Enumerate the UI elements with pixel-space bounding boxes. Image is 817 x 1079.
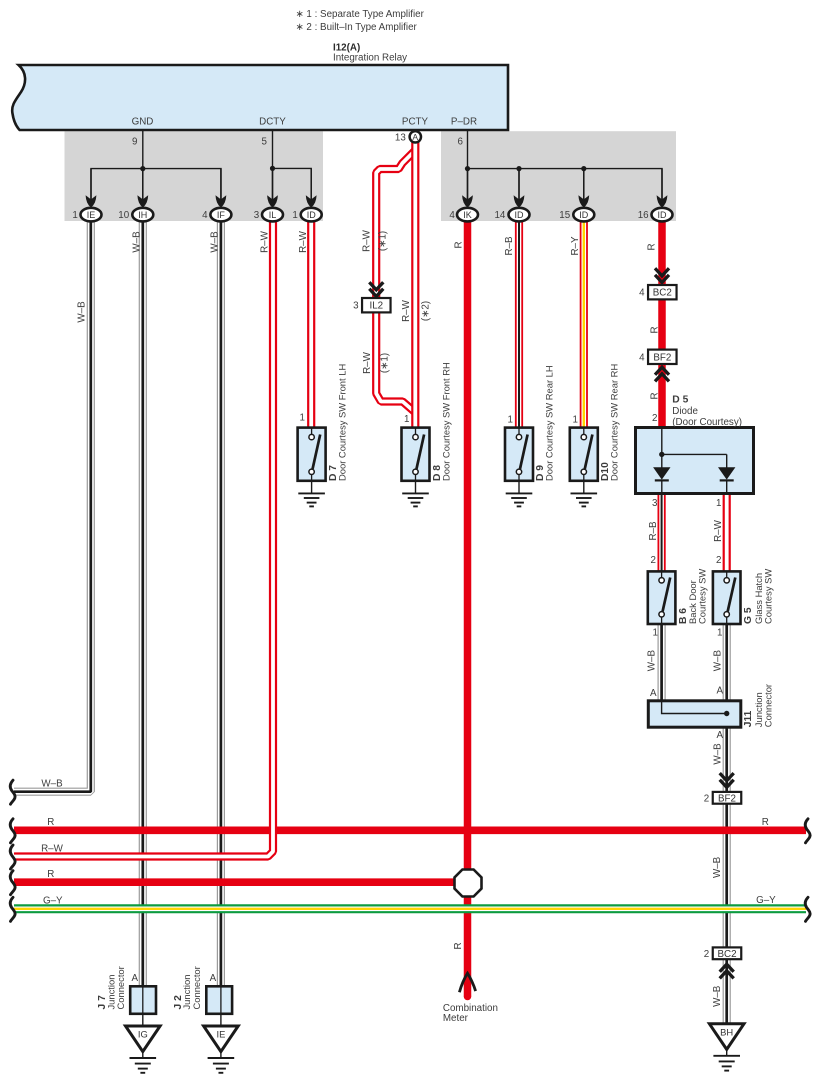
connector shading left (I12 pin block): [65, 131, 324, 221]
terminal A label J2: [210, 973, 217, 984]
svg-text:Connector: Connector: [763, 684, 774, 727]
pin 3 label D5: [652, 498, 658, 509]
svg-text:1: 1: [300, 413, 305, 424]
svg-text:R: R: [454, 241, 465, 248]
label Meter: [443, 1013, 469, 1024]
svg-text:∗ 2 : Built–In Type Amplifier: ∗ 2 : Built–In Type Amplifier: [296, 22, 418, 33]
note *2 built-in type amplifier: [296, 22, 418, 33]
wire R-B from pin 14 ID to switch D9: [515, 214, 523, 428]
break symbol W-B bus left: [10, 780, 15, 804]
label Door Courtesy SW Front RH: [441, 362, 452, 481]
diode (door courtesy) D5: [636, 428, 754, 494]
svg-text:D 5: D 5: [672, 395, 688, 406]
bus label G-Y left: [43, 896, 63, 907]
connector BC2 pin 2: [704, 947, 741, 959]
connector arrows into BC2 (pin4): [655, 268, 669, 282]
svg-text:3: 3: [652, 498, 658, 509]
terminal A label below J11: [716, 730, 723, 741]
label Connector (J11): [763, 684, 774, 727]
connector pin 16 ID: [638, 169, 673, 222]
svg-text:Door Courtesy SW Front RH: Door Courtesy SW Front RH: [441, 362, 452, 481]
door courtesy switch front LH D7: [298, 428, 326, 481]
bus label G-Y right: [756, 895, 776, 906]
svg-text:ID: ID: [515, 210, 525, 220]
octagon junction (R wire): [455, 870, 482, 897]
svg-text:BC2: BC2: [653, 288, 672, 299]
bus label R right: [762, 817, 769, 828]
terminal label GND: [132, 117, 154, 128]
svg-text:1: 1: [404, 414, 409, 425]
svg-text:4: 4: [639, 352, 645, 363]
svg-text:BC2: BC2: [717, 949, 736, 960]
pin 1 label G5: [717, 628, 722, 639]
connector arrows into IL2: [369, 282, 383, 296]
wire label (*1) lower: [380, 353, 391, 373]
svg-text:Connector: Connector: [115, 966, 126, 1009]
svg-text:W–B: W–B: [712, 743, 723, 765]
svg-text:W–B: W–B: [712, 650, 723, 672]
wire label W-B (G5-J11): [712, 650, 723, 672]
wire W-B from B6 to junction connector J11: [657, 624, 665, 701]
svg-text:1: 1: [716, 498, 721, 509]
svg-text:1: 1: [508, 415, 513, 426]
svg-text:R: R: [47, 869, 54, 880]
wire R-W PCTY (*1) via junction IL2: [376, 150, 415, 412]
wire R-W from diode D5 to glass hatch courtesy switch G5: [723, 493, 731, 572]
svg-text:Integration Relay: Integration Relay: [333, 53, 407, 64]
ground IG: [126, 1026, 161, 1073]
svg-text:4: 4: [449, 210, 455, 221]
svg-text:(∗1): (∗1): [380, 353, 391, 373]
svg-text:R–W: R–W: [260, 230, 271, 253]
svg-text:∗ 1 : Separate Type Amplifier: ∗ 1 : Separate Type Amplifier: [296, 9, 425, 20]
label Courtesy SW (B6): [697, 569, 708, 624]
label Junction (J7): [105, 975, 116, 1010]
junction dot P-DR at 15: [581, 166, 586, 171]
junction connector J11: [648, 701, 741, 727]
junction dot P-DR at IK: [465, 166, 470, 171]
wire W-B from pin IE to left break: [14, 214, 91, 792]
ground for D7: [298, 481, 325, 507]
connector pin 14 ID: [494, 169, 529, 222]
svg-text:W–B: W–B: [210, 231, 221, 253]
svg-text:W–B: W–B: [132, 231, 143, 253]
pin 1 label B6: [653, 628, 658, 639]
ground BH: [709, 1024, 744, 1071]
svg-text:DCTY: DCTY: [259, 117, 286, 128]
label Door Courtesy SW Rear LH: [544, 365, 555, 481]
bus wire R (upper): [14, 826, 806, 834]
pin 1 label D10: [573, 415, 578, 426]
svg-text:A: A: [716, 686, 723, 697]
wire label (*1) upper: [378, 231, 389, 251]
label Glass Hatch: [753, 573, 764, 624]
integration relay I12(A): [12, 65, 508, 130]
connector pin 13 A (PCTY): [395, 131, 421, 143]
break symbol R bus right: [805, 819, 810, 843]
wire P-DR branch horizontal: [468, 169, 663, 199]
wire GND branch horizontal: [91, 169, 221, 199]
svg-text:R: R: [47, 817, 54, 828]
svg-text:W–B: W–B: [77, 301, 88, 323]
pin 2 label D5: [652, 413, 657, 424]
svg-text:W–B: W–B: [41, 779, 63, 790]
label (Door Courtesy): [672, 417, 742, 428]
junction connector IL2 pin 3: [353, 298, 390, 312]
connector arrows into BF2 (pin2): [720, 773, 734, 787]
wire label R-W (D5-G5): [713, 519, 724, 542]
wire W-B from G5 through J11 BF2 BC2 to ground BH: [723, 624, 731, 1024]
svg-text:A: A: [716, 730, 723, 741]
svg-text:A: A: [650, 688, 657, 699]
junction connector J7: [130, 986, 156, 1014]
svg-text:A: A: [131, 973, 138, 984]
svg-text:Door Courtesy SW Rear LH: Door Courtesy SW Rear LH: [544, 365, 555, 481]
wire W-B from pin IH to junction connector J7: [139, 214, 147, 987]
wire W-B from pin IF to junction connector J2: [217, 214, 225, 987]
svg-text:IH: IH: [138, 210, 147, 220]
svg-text:A: A: [412, 132, 418, 142]
label Junction (J11): [753, 692, 764, 727]
wire label R-W *2: [401, 299, 412, 322]
svg-text:W–B: W–B: [712, 985, 723, 1007]
wire R-W PCTY (*2) to door courtesy switch D8: [411, 141, 419, 428]
label Junction (J2): [181, 975, 192, 1010]
wire J2 to ground IE: [220, 1014, 222, 1026]
svg-text:1: 1: [573, 415, 578, 426]
label Door Courtesy SW Rear RH: [609, 364, 620, 481]
svg-text:W–B: W–B: [646, 650, 657, 672]
svg-text:G–Y: G–Y: [756, 895, 776, 906]
door courtesy switch rear LH D9: [505, 428, 533, 481]
label Combination: [443, 1003, 498, 1014]
connector shading right (I12 pin block): [441, 131, 676, 221]
connector pin 1 ID (DCTY): [292, 168, 321, 221]
label Door Courtesy SW Front LH: [337, 364, 348, 481]
wire label W-B (IE): [77, 301, 88, 323]
ground for D9: [506, 481, 533, 507]
wire label R-W *1 lower: [362, 351, 373, 374]
wire DCTY pin 5 stub: [262, 131, 273, 168]
svg-text:Courtesy SW: Courtesy SW: [697, 569, 708, 624]
junction connector J2: [206, 986, 232, 1014]
svg-text:2: 2: [716, 555, 721, 566]
wire label W-B (IF): [210, 231, 221, 253]
label J 7: [97, 995, 108, 1010]
svg-text:6: 6: [458, 137, 464, 148]
wire label W-B (B6-J11): [646, 650, 657, 672]
svg-text:ID: ID: [307, 210, 317, 220]
ground for D10: [571, 481, 598, 507]
svg-text:9: 9: [132, 137, 137, 148]
svg-text:3: 3: [353, 301, 359, 312]
label D 7: [328, 465, 339, 481]
svg-text:IL2: IL2: [369, 301, 383, 312]
wire label R (BF2-D5): [650, 392, 661, 399]
pin 1 label D9: [508, 415, 513, 426]
svg-text:R: R: [650, 326, 661, 333]
svg-text:W–B: W–B: [712, 856, 723, 878]
junction dot DCTY branch: [270, 166, 275, 171]
note *1 separate type amplifier: [296, 9, 425, 20]
label D 9: [535, 465, 546, 481]
label Connector (J2): [191, 966, 202, 1009]
wire label R-Y (D10): [570, 236, 581, 256]
connector pin 15 ID: [559, 169, 594, 222]
svg-text:R: R: [646, 243, 657, 250]
junction dot GND branch: [140, 166, 145, 171]
wire GND pin 9 stub: [132, 131, 143, 169]
wire label R-B (D9): [504, 236, 515, 256]
wire label R-B (D5-B6): [648, 521, 659, 541]
svg-text:Meter: Meter: [443, 1013, 469, 1024]
connector pin 4 IK: [449, 169, 478, 222]
label B 6: [678, 608, 689, 624]
wire label R (16 ID): [646, 243, 657, 250]
wire R-W from pin IL to R-W bus: [14, 214, 273, 857]
connector arrows out of BC2 (pin2): [720, 964, 734, 978]
break symbol G-Y bus right: [805, 897, 810, 921]
svg-text:G–Y: G–Y: [43, 896, 63, 907]
svg-text:PCTY: PCTY: [402, 117, 429, 128]
door courtesy switch rear RH D10: [570, 428, 598, 481]
svg-text:Courtesy SW: Courtesy SW: [763, 569, 774, 624]
svg-text:2: 2: [651, 555, 656, 566]
terminal label DCTY: [259, 117, 286, 128]
pin 2 label B6: [651, 555, 656, 566]
wire label W-B (BC2-BH): [712, 985, 723, 1007]
svg-text:IF: IF: [217, 210, 226, 220]
wire label R (combination meter): [453, 942, 464, 949]
svg-text:IG: IG: [138, 1029, 148, 1040]
ground IE: [204, 1026, 239, 1073]
svg-text:R–W: R–W: [41, 844, 64, 855]
label Connector (J7): [115, 966, 126, 1009]
terminal label P-DR: [451, 117, 477, 128]
bus label W-B: [41, 779, 63, 790]
bus wire G-Y: [14, 904, 806, 913]
svg-text:1: 1: [292, 210, 297, 221]
bus wire R (lower) to octagon junction: [14, 878, 458, 886]
break symbol R-W bus left: [10, 845, 15, 869]
svg-text:R–W: R–W: [298, 230, 309, 253]
svg-text:4: 4: [639, 288, 645, 299]
svg-text:1: 1: [717, 628, 722, 639]
svg-text:Door Courtesy SW Front LH: Door Courtesy SW Front LH: [337, 364, 348, 481]
terminal A label B6 side: [650, 688, 657, 699]
wire R-W from pin ID to door courtesy switch D7: [307, 214, 315, 428]
svg-text:ID: ID: [579, 210, 589, 220]
wire label R (BC2-BF2): [650, 326, 661, 333]
svg-text:15: 15: [559, 210, 570, 221]
svg-text:R: R: [762, 817, 769, 828]
label I12(A): [333, 43, 360, 54]
wire R-Y from pin 15 ID to switch D10: [580, 214, 588, 428]
break symbol G-Y bus left: [10, 897, 15, 921]
svg-text:BF2: BF2: [718, 793, 736, 804]
svg-text:Diode: Diode: [672, 406, 698, 417]
wire label R-W *1 upper: [361, 229, 372, 252]
label D 8: [432, 465, 443, 481]
wire label (*2): [421, 301, 432, 321]
svg-text:10: 10: [118, 210, 129, 221]
wire P-DR pin 6 stub: [458, 131, 468, 169]
svg-text:IK: IK: [463, 210, 472, 220]
pin 1 label D7: [300, 413, 305, 424]
junction dot P-DR at 14: [516, 166, 521, 171]
svg-text:BF2: BF2: [653, 352, 671, 363]
connector pin 3 IL: [254, 168, 283, 221]
svg-text:1: 1: [653, 628, 658, 639]
terminal label PCTY: [402, 117, 429, 128]
bus label R left: [47, 817, 54, 828]
svg-text:R–Y: R–Y: [570, 236, 581, 256]
svg-text:IL: IL: [269, 210, 277, 220]
svg-text:Door Courtesy SW Rear RH: Door Courtesy SW Rear RH: [609, 364, 620, 481]
connector pin 4 IF: [202, 169, 231, 222]
terminal A label J7: [131, 973, 138, 984]
back door courtesy switch B6: [648, 571, 676, 624]
connector pin 1 IE: [72, 169, 101, 222]
terminal A label G5 side: [716, 686, 723, 697]
svg-text:P–DR: P–DR: [451, 117, 477, 128]
connector pin 10 IH: [118, 169, 153, 222]
svg-text:ID: ID: [658, 210, 668, 220]
svg-text:R–W: R–W: [362, 351, 373, 374]
wire label W-B (J11-BF2): [712, 743, 723, 765]
bus label R-W: [41, 844, 64, 855]
svg-text:R–B: R–B: [504, 236, 515, 256]
label Back Door: [687, 580, 698, 624]
svg-text:R: R: [650, 392, 661, 399]
connector BC2 pin 4: [639, 285, 676, 299]
svg-text:4: 4: [202, 210, 208, 221]
svg-text:IE: IE: [216, 1029, 225, 1040]
svg-text:(∗2): (∗2): [421, 301, 432, 321]
pin 1 label D5: [716, 498, 721, 509]
svg-text:(∗1): (∗1): [378, 231, 389, 251]
rounded end of R wire: [464, 993, 472, 1001]
glass hatch courtesy switch G5: [713, 571, 741, 624]
wire label R (IK): [454, 241, 465, 248]
connector BF2 pin 4: [639, 350, 676, 364]
svg-text:Connector: Connector: [191, 966, 202, 1009]
wire R from pin IK to combination meter: [464, 214, 472, 997]
wire label R-W (IL): [260, 230, 271, 253]
wire label R-W (ID-D7): [298, 230, 309, 253]
svg-text:16: 16: [638, 210, 649, 221]
pin 2 label G5: [716, 555, 721, 566]
svg-text:5: 5: [262, 137, 268, 148]
svg-text:R–W: R–W: [401, 299, 412, 322]
svg-text:2: 2: [704, 793, 709, 804]
label Diode: [672, 406, 698, 417]
ground for D8: [402, 481, 429, 507]
svg-text:R–W: R–W: [361, 229, 372, 252]
label Integration Relay: [333, 53, 407, 64]
label G 5: [743, 607, 754, 624]
svg-text:1: 1: [72, 210, 77, 221]
svg-text:2: 2: [704, 949, 709, 960]
wire label W-B (IH): [132, 231, 143, 253]
wire J7 to ground IG: [142, 1014, 144, 1026]
break symbol R lower bus left: [10, 871, 15, 895]
connector arrows out of BF2 (pin4): [655, 367, 669, 381]
svg-text:R: R: [453, 942, 464, 949]
svg-text:13: 13: [395, 132, 406, 143]
pin 1 label D8: [404, 414, 409, 425]
label J 2: [173, 995, 184, 1010]
svg-text:BH: BH: [720, 1026, 733, 1037]
svg-text:IE: IE: [87, 210, 96, 220]
svg-text:(Door Courtesy): (Door Courtesy): [672, 417, 742, 428]
bus label R lower: [47, 869, 54, 880]
door courtesy switch front RH D8: [402, 428, 430, 481]
svg-text:3: 3: [254, 210, 260, 221]
wire R-B from diode D5 to back door courtesy switch B6: [657, 493, 665, 572]
wire label W-B (BF2-BC2): [712, 856, 723, 878]
wire DCTY branch horizontal: [273, 168, 312, 199]
label D 5: [672, 395, 688, 406]
wire R from pin 16 ID to diode D5 via BC2 and BF2: [658, 214, 666, 428]
svg-text:14: 14: [494, 210, 505, 221]
label D10: [600, 462, 611, 481]
connector BF2 pin 2: [704, 792, 741, 804]
arrow to combination meter: [459, 973, 475, 992]
label Courtesy SW (G5): [763, 569, 774, 624]
svg-text:R–W: R–W: [713, 519, 724, 542]
svg-text:2: 2: [652, 413, 657, 424]
svg-text:A: A: [210, 973, 217, 984]
break symbol R bus left: [10, 819, 15, 843]
label J11: [743, 710, 754, 727]
svg-text:GND: GND: [132, 117, 154, 128]
svg-text:R–B: R–B: [648, 521, 659, 541]
